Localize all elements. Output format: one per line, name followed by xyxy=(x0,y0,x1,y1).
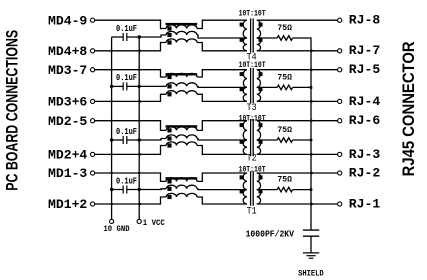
svg-text:MD2-5: MD2-5 xyxy=(48,114,87,129)
svg-text:MD1-3: MD1-3 xyxy=(48,166,87,181)
wire resistor to bus block 1 xyxy=(293,37,311,39)
svg-text:RJ-5: RJ-5 xyxy=(349,62,380,77)
choke L1 winding 1 xyxy=(166,25,197,29)
wire secondary to RJ bottom block 2 xyxy=(257,100,338,102)
wire choke to transformer top block 3 xyxy=(197,121,247,131)
junction VCC-cap block 4 xyxy=(138,188,141,191)
svg-text:MD4-9: MD4-9 xyxy=(48,13,87,28)
wire secondary to RJ top block 1 xyxy=(257,19,338,21)
wire choke to transformer centre block 3 xyxy=(197,139,247,141)
terminal pin 1 VCC xyxy=(137,219,141,223)
junction GND rail x MD2+4 wire xyxy=(110,153,112,155)
wire resistor to bus block 3 xyxy=(293,139,311,141)
wire secondary to RJ bottom block 1 xyxy=(257,50,338,52)
svg-text:MD3-7: MD3-7 xyxy=(48,63,87,78)
junction VCC rail x MD1-3 wire xyxy=(138,172,140,174)
svg-text:RJ45 CONNECTOR: RJ45 CONNECTOR xyxy=(400,41,418,176)
choke L2 winding 1 xyxy=(166,73,197,77)
choke L2 winding 3 xyxy=(166,91,197,95)
node VCC rail xyxy=(138,37,140,219)
svg-text:75Ω: 75Ω xyxy=(277,125,292,135)
wire MD input bottom block 3 xyxy=(95,146,166,155)
svg-text:RJ-1: RJ-1 xyxy=(349,196,380,211)
junction bus R3 xyxy=(310,139,313,142)
terminal RJ-3 xyxy=(338,152,342,156)
junction bus x RJ-1 wire xyxy=(311,202,314,206)
terminal RJ-1 xyxy=(338,202,342,206)
resistor R2 75ohm xyxy=(257,86,277,88)
wire choke to transformer bottom block 1 xyxy=(197,43,247,51)
wire cap to choke centre block 3 xyxy=(127,139,166,141)
capacitor C2 0.1uF xyxy=(112,85,124,87)
junction VCC rail x MD3+6 wire xyxy=(139,99,142,103)
svg-text:75Ω: 75Ω xyxy=(277,23,292,33)
transformer T1 core xyxy=(250,171,252,206)
choke L4 winding 3 xyxy=(166,193,197,197)
junction bus x RJ-7 wire xyxy=(311,49,314,53)
junction GND rail x MD3+6 wire xyxy=(110,100,112,102)
svg-text:RJ-8: RJ-8 xyxy=(349,13,380,28)
wire MD input top block 2 xyxy=(95,70,166,77)
terminal MD4+8 xyxy=(91,49,95,53)
wire cap to choke centre block 1 xyxy=(127,35,166,37)
svg-text:RJ-7: RJ-7 xyxy=(349,43,380,58)
svg-text:MD3+6: MD3+6 xyxy=(48,95,87,110)
ground SHIELD xyxy=(303,252,319,254)
left title: PC BOARD CONNECTIONS xyxy=(4,30,22,191)
wire cap to choke centre block 4 xyxy=(127,188,166,191)
right title: RJ45 CONNECTOR xyxy=(400,41,418,176)
transformer T4 primary winding xyxy=(243,20,247,38)
transformer T1 primary winding xyxy=(243,173,247,190)
junction GND-cap block 3 xyxy=(110,138,113,141)
svg-text:75Ω: 75Ω xyxy=(277,72,292,82)
svg-text:10T:10T: 10T:10T xyxy=(239,115,266,124)
wire resistor to bus block 2 xyxy=(293,86,311,88)
junction bus x RJ-4 wire xyxy=(311,99,314,103)
junction GND rail x MD2-5 wire xyxy=(110,120,112,122)
choke L1 winding 2 xyxy=(166,31,197,35)
wire choke to transformer centre block 2 xyxy=(197,86,247,87)
choke L4 core bar xyxy=(166,177,198,179)
svg-text:MD2+4: MD2+4 xyxy=(48,148,87,163)
junction bus x RJ-6 wire xyxy=(311,119,314,123)
svg-text:T1: T1 xyxy=(247,206,257,218)
transformer T2 secondary winding xyxy=(257,121,261,140)
wire choke to transformer bottom block 3 xyxy=(197,146,247,155)
wire MD input top block 1 xyxy=(95,20,166,28)
choke L4 winding 2 xyxy=(166,185,197,189)
transformer T3 primary winding xyxy=(243,70,247,88)
transformer T4 core xyxy=(250,18,252,52)
junction VCC rail x MD2+4 wire xyxy=(139,152,142,156)
svg-text:RJ-2: RJ-2 xyxy=(349,165,380,180)
choke L3 winding 1 xyxy=(166,127,197,131)
choke L3 winding 2 xyxy=(166,135,197,139)
wire choke to transformer bottom block 2 xyxy=(197,94,247,101)
wire choke to transformer top block 1 xyxy=(197,20,247,28)
wire choke to transformer bottom block 4 xyxy=(197,197,247,204)
resistor R1 75ohm xyxy=(257,37,277,39)
wire choke to transformer top block 4 xyxy=(197,173,247,181)
svg-text:SHIELD: SHIELD xyxy=(298,268,324,278)
terminal RJ-7 xyxy=(338,49,342,53)
choke L3 winding 3 xyxy=(166,142,197,146)
wire secondary to RJ bottom block 4 xyxy=(257,203,338,205)
junction GND rail x MD4+8 wire xyxy=(110,50,112,52)
transformer T3 core xyxy=(250,68,252,103)
wire cap to shield ground xyxy=(310,236,312,252)
terminal RJ-5 xyxy=(338,68,342,72)
junction GND rail x MD3-7 wire xyxy=(110,69,112,71)
svg-text:10 GND: 10 GND xyxy=(103,224,129,234)
choke L1 core bar xyxy=(166,23,198,25)
wire secondary to RJ top block 3 xyxy=(257,120,338,122)
svg-text:T2: T2 xyxy=(247,153,257,165)
transformer T1 secondary winding xyxy=(257,173,261,190)
choke L1 winding 3 xyxy=(166,39,197,43)
wire MD input bottom block 2 xyxy=(95,94,166,101)
junction GND-cap block 4 xyxy=(110,188,113,191)
junction VCC-cap block 3 xyxy=(138,138,141,141)
junction bus R2 xyxy=(310,86,313,89)
junction GND-cap block 2 xyxy=(110,85,113,88)
terminal MD2-5 xyxy=(91,119,95,123)
wire choke to transformer centre block 1 xyxy=(197,35,247,38)
capacitor C1 0.1uF xyxy=(112,36,124,38)
wire resistor to bus block 4 xyxy=(293,189,311,191)
svg-text:RJ-4: RJ-4 xyxy=(349,94,380,109)
wire choke to transformer top block 2 xyxy=(197,70,247,77)
svg-text:RJ-3: RJ-3 xyxy=(349,147,380,162)
choke L3 core bar xyxy=(166,125,198,127)
terminal MD1-3 xyxy=(91,171,95,175)
node resistor common bus xyxy=(310,38,312,230)
terminal RJ-6 xyxy=(338,119,342,123)
svg-text:PC BOARD CONNECTIONS: PC BOARD CONNECTIONS xyxy=(4,30,22,191)
wire MD input bottom block 4 xyxy=(95,197,166,204)
svg-text:MD4+8: MD4+8 xyxy=(48,44,87,59)
junction VCC-cap block 2 xyxy=(138,85,141,88)
junction bus x RJ-3 wire xyxy=(311,152,314,156)
terminal RJ-8 xyxy=(338,18,342,22)
svg-text:75Ω: 75Ω xyxy=(277,175,292,185)
svg-text:0.1uF: 0.1uF xyxy=(116,24,137,34)
terminal pin 10 GND xyxy=(110,219,114,223)
wire cap to choke centre block 2 xyxy=(127,85,166,87)
junction bus R4 xyxy=(310,188,313,191)
junction GND rail x MD1-3 wire xyxy=(110,172,112,174)
junction VCC-cap block 1 xyxy=(138,35,141,38)
transformer T2 primary winding xyxy=(243,121,247,140)
choke L2 winding 2 xyxy=(166,83,197,87)
junction VCC rail x MD2-5 wire xyxy=(138,120,140,122)
transformer T4 secondary winding xyxy=(257,20,261,38)
junction bus x RJ-2 wire xyxy=(311,171,314,175)
junction VCC rail x MD4+8 wire xyxy=(139,49,142,53)
resistor R4 75ohm xyxy=(257,189,277,191)
wire MD input bottom block 1 xyxy=(95,43,166,51)
svg-text:0.1uF: 0.1uF xyxy=(116,127,137,137)
capacitor C4 0.1uF xyxy=(112,189,124,191)
svg-text:T3: T3 xyxy=(247,102,257,114)
svg-text:0.1uF: 0.1uF xyxy=(116,73,137,83)
terminal MD3+6 xyxy=(91,99,95,103)
wire MD input top block 3 xyxy=(95,121,166,131)
junction VCC rail x MD1+2 wire xyxy=(139,202,142,206)
wire secondary to RJ top block 2 xyxy=(257,69,338,71)
terminal MD3-7 xyxy=(91,68,95,72)
svg-text:1000PF/2KV: 1000PF/2KV xyxy=(246,228,295,239)
capacitor C3 0.1uF xyxy=(112,139,124,141)
svg-text:1 VCC: 1 VCC xyxy=(143,218,165,228)
terminal MD4-9 xyxy=(91,18,95,22)
junction VCC rail x MD3-7 wire xyxy=(138,69,140,71)
svg-text:10T:10T: 10T:10T xyxy=(239,10,266,19)
terminal RJ-2 xyxy=(338,171,342,175)
wire secondary to RJ top block 4 xyxy=(257,172,338,174)
transformer T3 secondary winding xyxy=(257,70,261,88)
wire secondary to RJ bottom block 3 xyxy=(257,153,338,155)
transformer T2 core xyxy=(250,119,252,156)
svg-text:10T:10T: 10T:10T xyxy=(239,61,266,70)
wire choke to transformer centre block 4 xyxy=(197,188,247,191)
choke L2 core bar xyxy=(166,73,198,75)
choke L4 winding 1 xyxy=(166,178,197,182)
junction bus x RJ-5 wire xyxy=(311,68,314,72)
terminal RJ-4 xyxy=(338,99,342,103)
svg-text:RJ-6: RJ-6 xyxy=(349,113,380,128)
junction GND rail x MD1+2 wire xyxy=(110,203,112,205)
svg-text:MD1+2: MD1+2 xyxy=(48,197,87,212)
terminal MD2+4 xyxy=(91,152,95,156)
svg-text:0.1uF: 0.1uF xyxy=(116,176,137,186)
terminal MD1+2 xyxy=(91,202,95,206)
node GND rail xyxy=(111,37,113,219)
resistor R3 75ohm xyxy=(257,139,277,141)
wire MD input top block 4 xyxy=(95,173,166,181)
